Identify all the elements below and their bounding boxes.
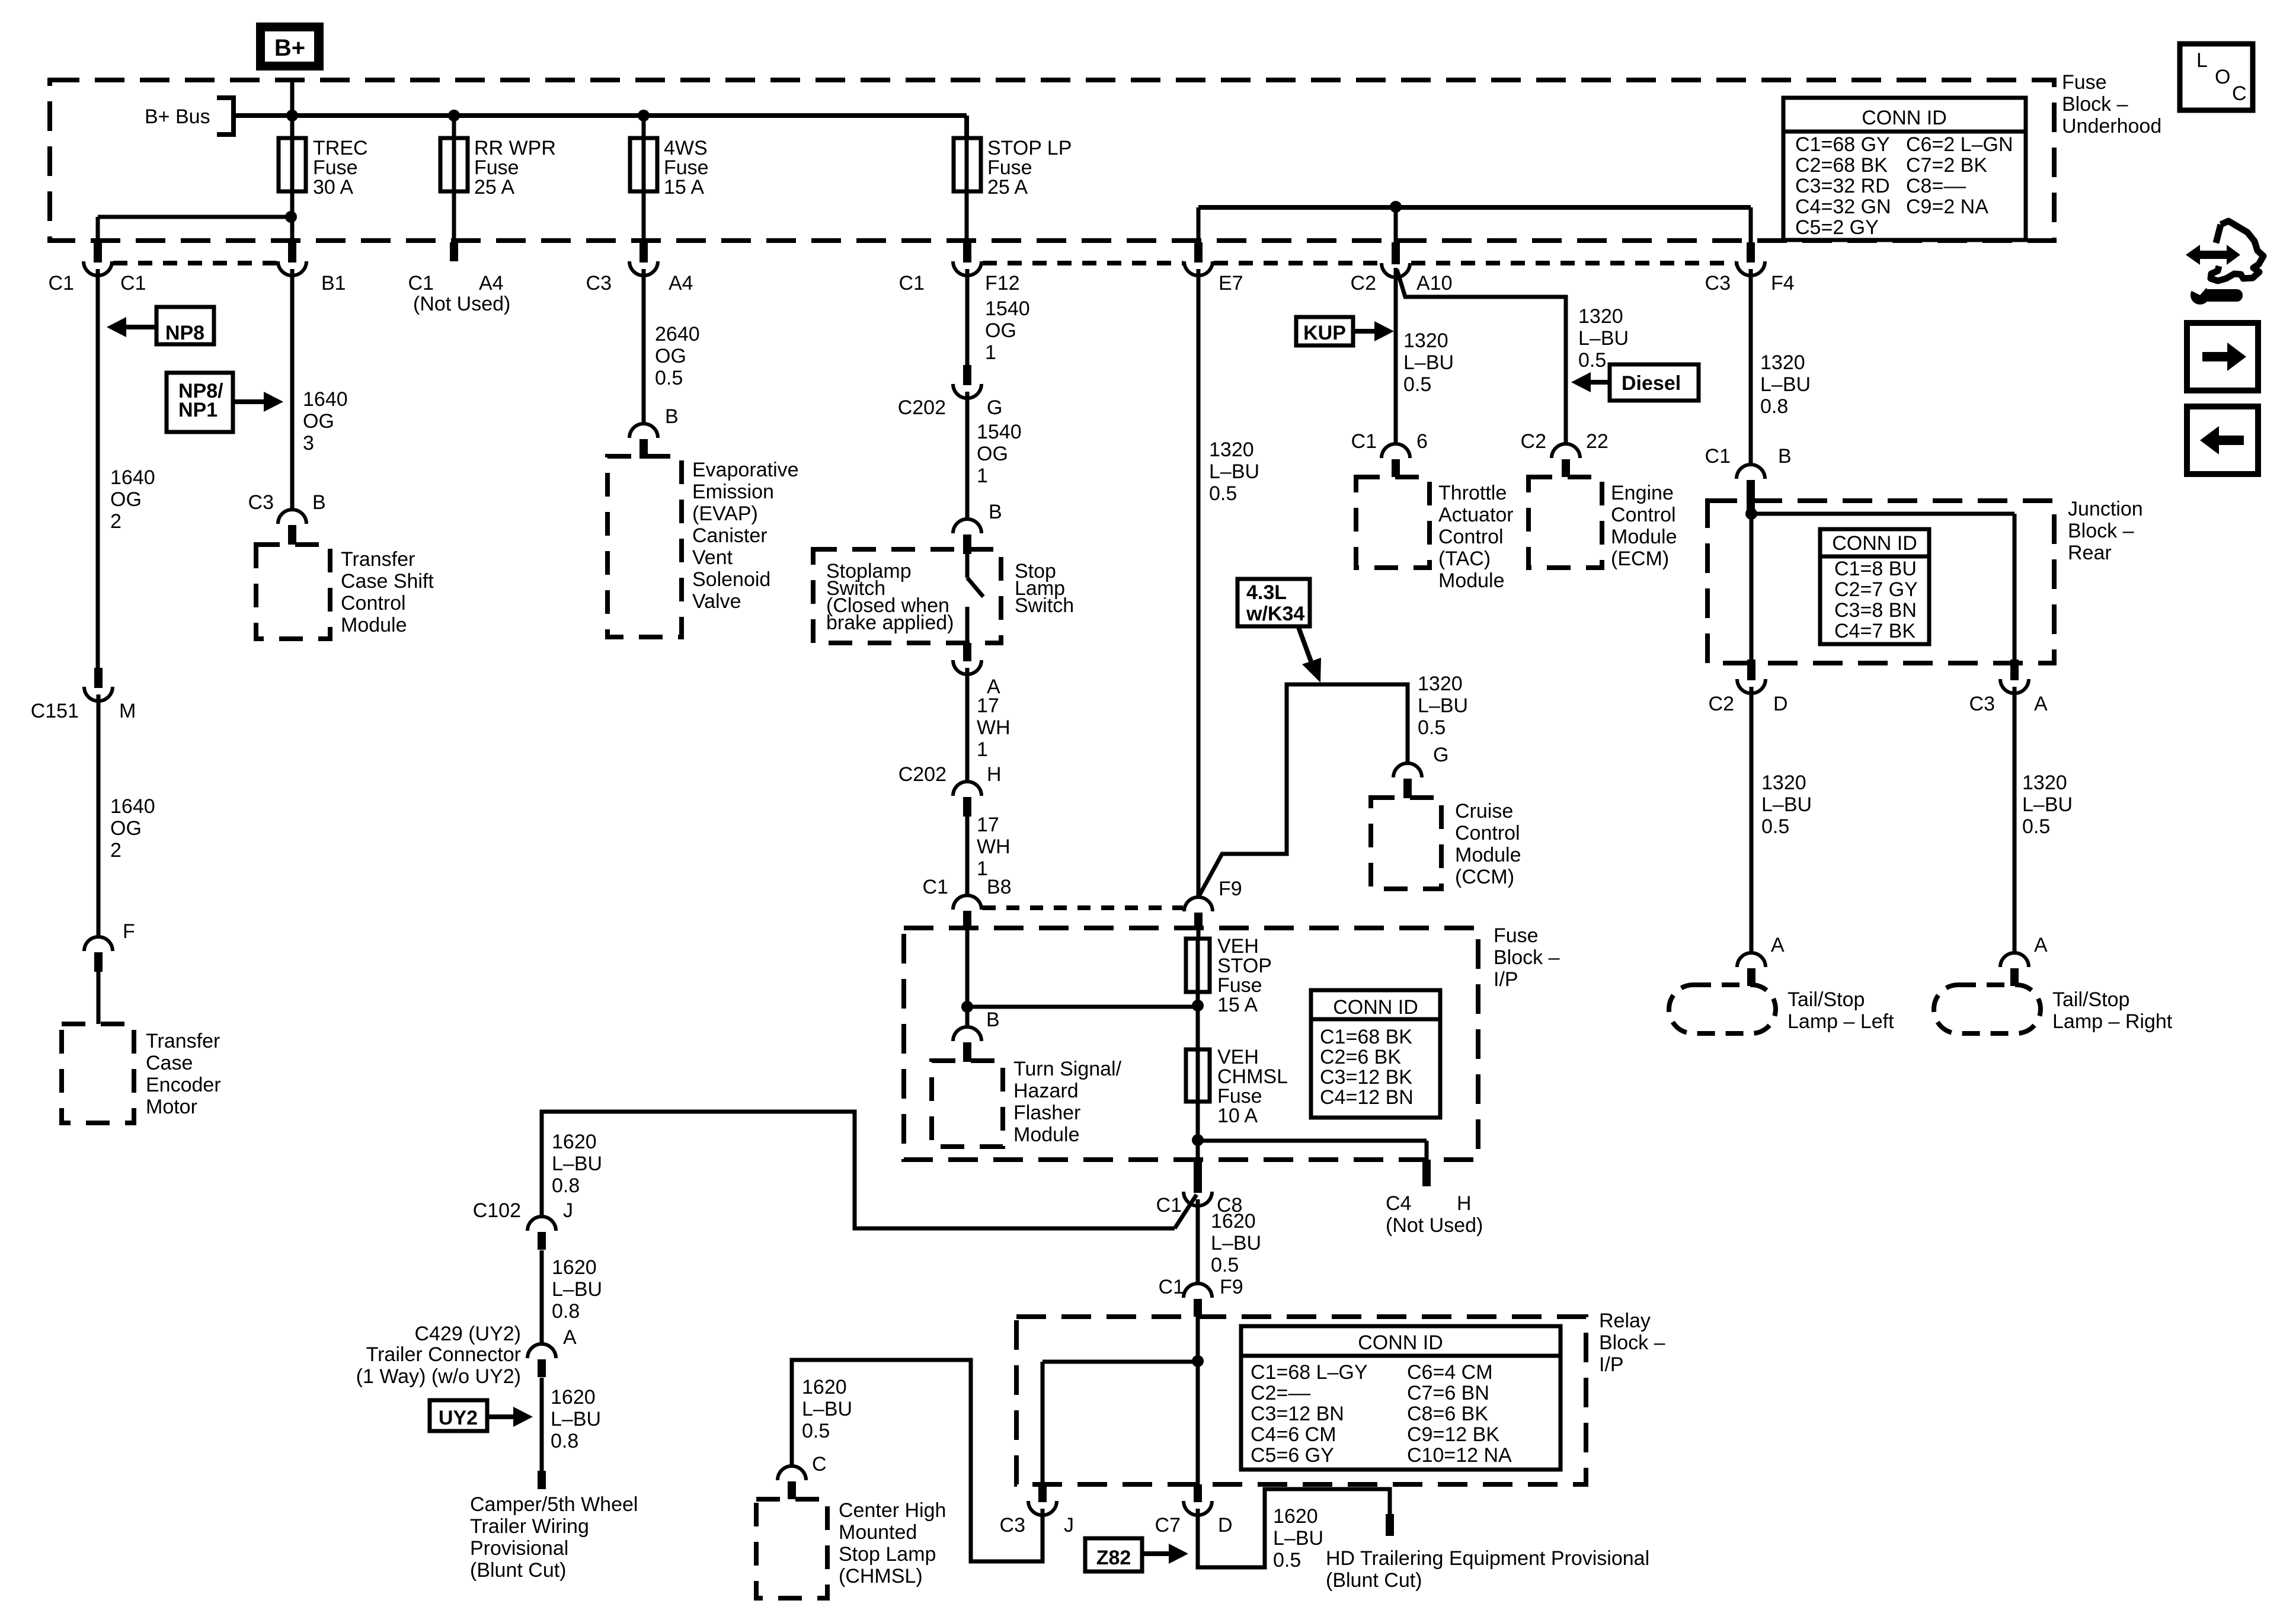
connector B switch [953,519,981,554]
svg-text:C2=68 BK: C2=68 BK [1795,154,1888,177]
connector C1 B1 [278,242,306,276]
svg-text:Module: Module [1013,1124,1080,1146]
svg-text:C3=32 RD: C3=32 RD [1795,175,1890,197]
wire switch upper contact [965,554,970,578]
svg-text:0.5: 0.5 [802,1420,830,1442]
connector E7 [1184,242,1213,276]
svg-text:L–BU: L–BU [1760,373,1811,396]
svg-text:6: 6 [1416,430,1428,453]
junction branch/A10 [1390,201,1402,213]
junction TREC output [285,211,297,223]
svg-text:1: 1 [977,465,988,487]
svg-text:L–BU: L–BU [1418,694,1468,717]
svg-text:C202: C202 [898,396,946,419]
svg-text:C3=12 BN: C3=12 BN [1251,1403,1344,1425]
svg-text:Valve: Valve [692,590,741,613]
wire 2640 OG 0.5 [642,269,646,424]
option box KUP [1296,317,1353,345]
B+ Bus bracket [217,98,234,135]
svg-text:G: G [987,396,1002,419]
svg-text:C1: C1 [1351,430,1377,453]
connector C1 (left) [84,242,112,276]
label Cruise Control Module [1455,800,1521,888]
label EVAP valve [692,459,799,613]
svg-text:Control: Control [1438,526,1504,548]
dotted connector-body line B8-F9 [983,905,1183,910]
wire C3 J down [1041,1362,1045,1484]
svg-text:Relay: Relay [1599,1310,1651,1332]
svg-text:OG: OG [655,345,686,367]
svg-text:A: A [2034,693,2048,715]
svg-text:L–BU: L–BU [552,1278,602,1301]
svg-text:H: H [1457,1192,1472,1215]
connector F9 fuse block I/P [1184,897,1213,930]
svg-text:15 A: 15 A [664,176,704,199]
svg-text:C4=7 BK: C4=7 BK [1834,620,1916,642]
svg-text:L–BU: L–BU [551,1408,601,1430]
connector C7 D [1184,1484,1212,1515]
wire 1620 L-BU 0.5 [1196,1199,1200,1284]
svg-text:17: 17 [977,694,999,717]
wire 17 WH 1 upper [965,668,970,782]
connector B flasher [953,1027,981,1062]
svg-text:B+ Bus: B+ Bus [145,105,210,128]
wire internal branch E7-A10-F4 [1198,205,1751,210]
svg-text:0.5: 0.5 [1418,716,1446,739]
option box UY2 [430,1400,487,1431]
module Throttle Actuator Control TAC [1356,477,1430,568]
wire relay J to CHMSL [792,1360,1043,1561]
wire to flasher B [965,1007,970,1028]
svg-text:I/P: I/P [1494,968,1518,991]
svg-text:0.5: 0.5 [1209,482,1237,505]
wire 4WS feed [642,116,646,242]
svg-text:1540: 1540 [977,421,1022,443]
power feed B+ box [256,23,324,71]
CONN ID table junction block [1820,529,1929,644]
svg-text:1620: 1620 [552,1131,597,1153]
dotted connector-body line E7-C2 [1214,261,1380,265]
label flasher module [1013,1058,1122,1146]
svg-text:B1: B1 [321,272,346,295]
svg-text:C3: C3 [1969,693,1995,715]
Junction Block - Rear dashed outline [1707,501,2054,663]
svg-text:B: B [1778,445,1792,468]
svg-text:Rear: Rear [2068,542,2112,564]
wire switch lower contact [965,607,970,643]
label RR WPR fuse [474,137,556,199]
arrow NP8/NP1 to wire [233,392,283,412]
wire A10 to ECM [1397,270,1566,444]
svg-text:B+: B+ [274,35,305,61]
option box NP8/NP1 [167,373,233,432]
wire B+ to bus [290,82,295,116]
svg-text:J: J [1064,1514,1074,1537]
svg-text:WH: WH [977,836,1011,858]
svg-text:1320: 1320 [1760,351,1805,374]
junction bus/TREC [286,110,298,121]
svg-text:0.5: 0.5 [1273,1549,1301,1571]
svg-text:C2=––: C2=–– [1251,1382,1310,1404]
module Engine Control Module ECM [1528,477,1602,568]
connector C1 F9 relay block [1184,1283,1212,1317]
wire to C4 H [1198,1139,1427,1143]
svg-text:CONN ID: CONN ID [1862,107,1947,129]
svg-text:Cruise: Cruise [1455,800,1513,822]
svg-text:1320: 1320 [1403,329,1448,352]
svg-text:Transfer: Transfer [146,1030,220,1052]
svg-text:C202: C202 [898,763,946,786]
svg-text:C1: C1 [923,876,948,898]
svg-text:C1: C1 [1156,1194,1182,1217]
wire to encoder motor [97,971,101,1024]
svg-text:F9: F9 [1219,878,1242,900]
wire through VEH STOP fuse [1196,939,1200,992]
svg-text:C3: C3 [1705,272,1731,295]
svg-text:C: C [812,1453,827,1475]
svg-text:0.5: 0.5 [1403,373,1431,396]
svg-text:NP8: NP8 [165,322,204,344]
label Fuse Block IP [1494,924,1560,991]
stub camper blunt cut [538,1471,546,1489]
wire relay D to HD trailering [1198,1489,1390,1567]
svg-text:Throttle: Throttle [1438,482,1507,504]
Fuse Block - Underhood dashed outline [50,80,2054,241]
svg-text:0.5: 0.5 [655,367,683,389]
svg-text:1320: 1320 [1578,305,1623,328]
svg-text:D: D [1773,693,1788,715]
connector C2 A10 [1382,242,1410,277]
svg-text:Control: Control [341,592,406,614]
svg-text:C3: C3 [1000,1514,1025,1537]
svg-text:3: 3 [303,432,314,454]
connector C1 C8 [1184,1160,1212,1206]
svg-text:C1: C1 [49,272,74,295]
svg-text:Z82: Z82 [1096,1547,1131,1569]
wire 1620 L-BU 0.8 lower [540,1378,544,1471]
svg-text:B8: B8 [987,876,1012,898]
junction bus/RR WPR [448,110,460,121]
label Fuse Block Underhood [2062,71,2161,137]
svg-text:(Blunt Cut): (Blunt Cut) [1326,1569,1422,1592]
wire 1320 L-BU 0.8 [1749,269,1753,466]
svg-text:Block –: Block – [1494,946,1560,969]
svg-text:C4: C4 [1386,1192,1411,1215]
wire diagonal into C8 [1175,1195,1197,1228]
svg-text:L–BU: L–BU [1211,1232,1261,1254]
connector F [84,937,113,972]
arrow UY2 to wire [487,1407,533,1427]
connector C3 F4 [1737,242,1765,276]
svg-text:Stop Lamp: Stop Lamp [839,1543,936,1566]
svg-text:(1 Way) (w/o UY2): (1 Way) (w/o UY2) [356,1365,521,1388]
svg-text:B: B [665,405,679,428]
wire to veh stop fuse [967,1005,1198,1009]
svg-text:NP1: NP1 [178,399,218,421]
connector A below switch [953,643,981,674]
label camper trailer wiring [470,1493,638,1582]
svg-text:C6=4 CM: C6=4 CM [1407,1361,1493,1384]
svg-text:C: C [2232,82,2247,105]
svg-text:C3=12 BK: C3=12 BK [1320,1066,1412,1089]
svg-text:0.5: 0.5 [2022,815,2050,838]
svg-text:Vent: Vent [692,546,733,569]
svg-text:F4: F4 [1771,272,1795,295]
CONN ID table underhood [1783,98,2026,240]
junction chmsl out [1192,1134,1204,1146]
wire C8 to camper trailer [542,1112,1175,1228]
svg-text:L–BU: L–BU [1209,460,1259,483]
svg-text:(ECM): (ECM) [1611,548,1669,570]
svg-text:A4: A4 [669,272,693,295]
svg-text:L–BU: L–BU [552,1153,602,1175]
wire RR WPR feed [452,116,456,242]
svg-text:Fuse: Fuse [1494,924,1539,947]
svg-text:C2=6 BK: C2=6 BK [1320,1046,1401,1068]
switch blade [967,578,983,597]
fuse 4WS 15A [630,138,657,191]
wire branch to A10 [1394,207,1398,242]
svg-text:w/K34: w/K34 [1246,603,1304,625]
arrow Diesel to wire [1571,372,1610,392]
svg-text:F9: F9 [1220,1276,1243,1298]
connector C1 B8 [953,895,981,929]
svg-text:C8=––: C8=–– [1906,175,1966,197]
svg-text:Case: Case [146,1052,193,1074]
svg-text:C2: C2 [1351,272,1376,295]
svg-text:Provisional: Provisional [470,1537,568,1560]
svg-text:Underhood: Underhood [2062,115,2161,137]
svg-text:L–BU: L–BU [1761,793,1812,816]
label Relay Block IP [1599,1310,1665,1376]
fuse VEH CHMSL 10A [1186,1049,1210,1102]
svg-text:Tail/Stop: Tail/Stop [2052,988,2129,1011]
svg-text:2: 2 [110,510,121,533]
svg-text:C4=6 CM: C4=6 CM [1251,1423,1336,1446]
svg-text:L–BU: L–BU [1273,1527,1323,1550]
svg-text:Actuator: Actuator [1438,504,1514,526]
svg-text:4.3L: 4.3L [1246,581,1287,604]
svg-text:WH: WH [977,716,1011,739]
connector C102 J [527,1217,556,1250]
junction veh stop [1192,1000,1204,1012]
svg-text:0.5: 0.5 [1761,815,1789,838]
wire 17 WH 1 lower [965,815,970,896]
svg-text:C429 (UY2): C429 (UY2) [414,1323,521,1345]
svg-text:C8=6 BK: C8=6 BK [1407,1403,1488,1425]
svg-text:brake applied): brake applied) [826,612,954,634]
option box 4.3L w/K34 [1237,579,1310,626]
svg-text:(EVAP): (EVAP) [692,502,758,525]
svg-text:Canister: Canister [692,524,768,547]
svg-text:C2: C2 [1521,430,1546,453]
svg-text:C151: C151 [31,700,79,722]
wire 1640 OG 2 upper [96,269,100,668]
stub C4 H not used [1422,1160,1431,1186]
svg-text:OG: OG [303,410,334,433]
svg-text:B: B [989,501,1002,523]
junction relay [1192,1355,1204,1367]
svg-text:(Blunt Cut): (Blunt Cut) [470,1559,567,1582]
svg-text:15 A: 15 A [1217,994,1258,1016]
svg-text:Tail/Stop: Tail/Stop [1787,988,1865,1011]
service tool icon [2186,221,2263,305]
right-arrow legend box [2187,323,2258,391]
svg-text:CONN ID: CONN ID [1333,996,1418,1019]
svg-text:1320: 1320 [1761,772,1806,794]
svg-text:1640: 1640 [303,388,348,411]
svg-text:0.8: 0.8 [551,1430,578,1452]
svg-text:Evaporative: Evaporative [692,459,799,481]
svg-text:(Not Used): (Not Used) [413,293,510,315]
svg-text:22: 22 [1586,430,1609,453]
svg-text:C6=2 L–GN: C6=2 L–GN [1906,133,2013,156]
svg-text:(CCM): (CCM) [1455,866,1514,888]
svg-text:B: B [986,1009,1000,1031]
module CHMSL dashed box [756,1499,827,1598]
arrow 4.3L w/K34 to wire [1298,626,1321,683]
Relay Block - I/P dashed outline [1016,1317,1586,1484]
svg-text:C10=12 NA: C10=12 NA [1407,1444,1512,1467]
svg-text:C2=7 GY: C2=7 GY [1834,578,1918,601]
svg-text:Center High: Center High [839,1499,946,1522]
connector C3 A4 [629,242,658,276]
svg-text:Turn Signal/: Turn Signal/ [1013,1058,1122,1080]
LOC legend box [2180,44,2253,110]
svg-text:B: B [312,491,326,514]
wire between fuses [1196,992,1200,1102]
svg-text:C3: C3 [248,491,274,514]
svg-text:Fuse: Fuse [2062,71,2107,94]
svg-text:1320: 1320 [1209,438,1254,461]
svg-text:KUP: KUP [1303,322,1346,344]
svg-text:1620: 1620 [802,1376,847,1398]
module EVAP Canister Vent Solenoid Valve [607,456,682,637]
dotted connector-body line C2-C3 [1411,261,1735,265]
svg-text:Block –: Block – [2068,520,2134,542]
connector C202 G [953,365,981,398]
svg-text:C1=8 BU: C1=8 BU [1834,558,1917,580]
connector B evap [629,424,658,459]
svg-text:0.5: 0.5 [1211,1254,1239,1276]
wire bus corner down to STOP LP fuse [964,116,969,138]
arrow Z82 to wire [1142,1544,1188,1564]
option box Diesel [1610,364,1699,401]
svg-text:0.5: 0.5 [1578,349,1606,372]
option box Z82 [1085,1538,1142,1571]
svg-text:2: 2 [110,839,121,862]
svg-text:CONN ID: CONN ID [1358,1331,1443,1354]
Tail/Stop Lamp Left dashed oval [1669,985,1776,1033]
label VEH STOP fuse [1217,935,1272,1016]
connector C3 A [2000,660,2029,693]
wire branch to F4 [1749,207,1753,242]
label Junction Block Rear [2068,498,2143,564]
svg-text:Trailer Connector: Trailer Connector [366,1343,521,1366]
wire B8 into block [965,928,970,1007]
connector C202 H [953,782,981,817]
svg-text:C9=12 BK: C9=12 BK [1407,1423,1499,1446]
junction jb [1745,508,1757,520]
svg-text:Lamp – Left: Lamp – Left [1787,1010,1894,1033]
wire 1640 OG 2 lower [97,694,101,937]
connector C3 J [1028,1484,1057,1515]
wire STOP LP column [965,138,969,242]
svg-text:OG: OG [985,319,1016,342]
wire B+ bus [234,113,967,118]
wire to C3 J [1043,1360,1198,1364]
svg-text:30 A: 30 A [313,176,353,199]
svg-text:1620: 1620 [1211,1210,1256,1233]
svg-text:(TAC): (TAC) [1438,548,1491,570]
wire TREC fuse column [290,116,295,217]
label STOP LP fuse [987,137,1072,199]
junction b8 [961,1001,973,1013]
svg-text:C7=2 BK: C7=2 BK [1906,154,1987,177]
label stoplamp switch [826,560,954,634]
svg-text:Motor: Motor [146,1096,197,1118]
wire C4 H down [1425,1141,1429,1160]
connector C1 F12 [953,242,981,276]
fuse VEH STOP 15A [1186,939,1210,992]
svg-text:C1: C1 [1705,445,1731,468]
module Cruise Control Module CCM [1371,798,1441,889]
svg-text:Module: Module [1455,844,1521,866]
svg-text:25 A: 25 A [474,176,514,199]
connector G cruise [1393,763,1422,798]
label Transfer Case Encoder Motor [146,1030,221,1118]
svg-text:Junction: Junction [2068,498,2143,520]
svg-text:A: A [563,1326,577,1349]
svg-text:Lamp – Right: Lamp – Right [2052,1010,2173,1033]
svg-text:Module: Module [1611,526,1677,548]
svg-text:O: O [2215,66,2230,88]
svg-text:Control: Control [1611,504,1676,526]
stub HD trailering blunt cut [1386,1514,1394,1536]
svg-text:Diesel: Diesel [1622,372,1681,395]
svg-text:C1=68 GY: C1=68 GY [1795,133,1890,156]
svg-text:1640: 1640 [110,795,155,818]
svg-text:C3=8 BN: C3=8 BN [1834,599,1917,622]
svg-text:L–BU: L–BU [1578,327,1629,350]
svg-text:OG: OG [977,443,1008,465]
dotted connector-body line F12-E7 [983,261,1183,265]
label TAC module [1438,482,1514,592]
svg-text:C7: C7 [1155,1514,1181,1537]
wire to C1 left branch [98,215,291,219]
arrow NP8 to wire [107,317,158,337]
svg-text:L–BU: L–BU [2022,793,2073,816]
svg-text:HD Trailering Equipment Provis: HD Trailering Equipment Provisional [1326,1547,1649,1570]
svg-text:Case Shift: Case Shift [341,570,434,593]
wire left branch down [96,217,100,242]
svg-text:D: D [1218,1514,1233,1537]
wire 1620 L-BU 0.8 mid [540,1250,544,1345]
svg-text:Module: Module [341,614,407,636]
connector A tail lamp right [2000,953,2029,986]
Stoplamp Switch dashed box [813,549,1001,643]
label CHMSL module [839,1499,946,1587]
svg-text:C4=12 BN: C4=12 BN [1320,1086,1414,1109]
connector C1 6 TAC [1382,444,1410,477]
svg-text:C2: C2 [1709,693,1734,715]
junction bus/4WS [638,110,650,121]
connector C1 B junction block [1737,465,1765,513]
connector C429 A trailer [527,1344,556,1377]
svg-text:C1: C1 [120,272,146,295]
svg-text:C1: C1 [408,272,434,295]
svg-text:A10: A10 [1416,272,1453,295]
